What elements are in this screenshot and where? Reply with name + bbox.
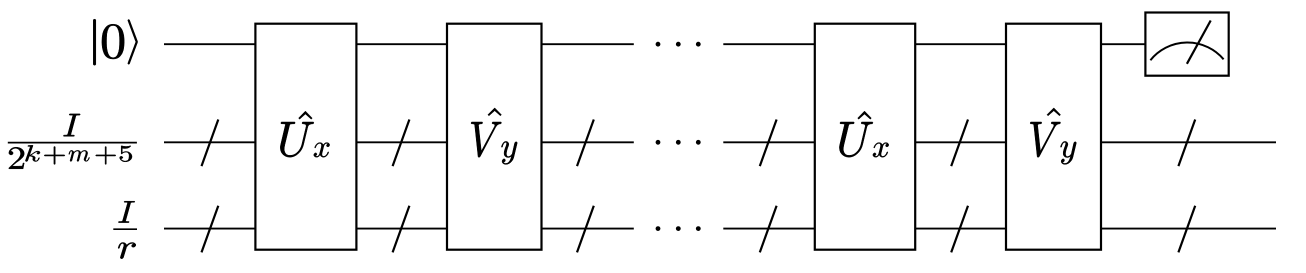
bus slash q2 #1 [202, 206, 219, 253]
label U box1 U [280, 122, 314, 157]
bus slash q2 #6 [1178, 206, 1195, 253]
ket bar | [93, 19, 96, 65]
bus slash q2 #3 [577, 206, 594, 253]
wire q1 segment 3 [542, 141, 634, 143]
wire q2 segment 4 [723, 228, 815, 230]
label V box4 V [1030, 122, 1060, 157]
wire q1 segment 1 [164, 141, 255, 143]
meter needle [1187, 21, 1211, 64]
wire q1 segment 4 [723, 141, 815, 143]
wire q2 segment 6 [1101, 228, 1276, 230]
bus slash q1 #2 [393, 120, 410, 167]
bus slash q2 #5 [951, 206, 968, 253]
meter box [1145, 13, 1228, 76]
gate V_y box 1 [447, 24, 542, 250]
gate U_x box 2 [815, 24, 915, 250]
frac1 exp 5 [120, 146, 132, 162]
label V box2 V [471, 122, 501, 157]
meter arc [1150, 43, 1223, 61]
frac1 bar [8, 142, 137, 144]
frac1 numerator I [63, 114, 80, 136]
bus slash q1 #6 [1178, 120, 1195, 167]
wire q1 segment 5 [915, 141, 1006, 143]
frac1 exp k [25, 145, 40, 161]
bus slash q1 #5 [951, 120, 968, 167]
wire q0 segment 5 [915, 43, 1006, 45]
ellipsis dots q0 [656, 42, 701, 47]
label U box3 sub x [873, 143, 889, 158]
frac1 exp plus 2 [96, 147, 116, 165]
wire q0 segment 3 [542, 43, 634, 45]
frac2 numerator I [118, 201, 134, 222]
label V box4 sub y [1061, 141, 1077, 164]
frac1 exp plus 1 [44, 147, 65, 165]
label V box4 hat [1047, 108, 1061, 116]
bus slash q2 #4 [760, 206, 777, 253]
frac2 bar [113, 228, 137, 230]
wire q2 segment 2 [356, 228, 447, 230]
wire q1 segment 2 [356, 141, 447, 143]
frac2 denominator r [118, 243, 136, 259]
wire q0 segment 1 [164, 43, 255, 45]
frac1 exp m [69, 150, 90, 161]
wire q0 segment 6 [1101, 43, 1145, 45]
label U box1 hat [299, 111, 313, 119]
ket zero [102, 24, 124, 59]
bus slash q1 #1 [202, 120, 219, 167]
label U box1 sub x [314, 143, 330, 158]
label U box3 hat [858, 111, 872, 119]
label V box2 hat [488, 108, 502, 116]
bus slash q1 #3 [577, 120, 594, 167]
wire q2 segment 1 [164, 228, 255, 230]
gate V_y box 2 [1006, 24, 1101, 250]
label V box2 sub y [501, 141, 517, 164]
bus slash q1 #4 [760, 120, 777, 167]
wire q2 segment 3 [542, 228, 634, 230]
gate U_x box 1 [255, 24, 356, 250]
label U box3 U [839, 122, 873, 157]
bus slash q2 #2 [393, 206, 410, 253]
ellipsis dots q2 [656, 226, 701, 231]
frac1 digit 2 [9, 147, 24, 169]
wire q0 segment 4 [723, 43, 815, 45]
wire q1 segment 6 [1101, 141, 1276, 143]
wire q0 segment 2 [356, 43, 447, 45]
ellipsis dots q1 [656, 140, 701, 145]
wire q2 segment 5 [915, 228, 1006, 230]
ket angle bracket [128, 20, 138, 65]
